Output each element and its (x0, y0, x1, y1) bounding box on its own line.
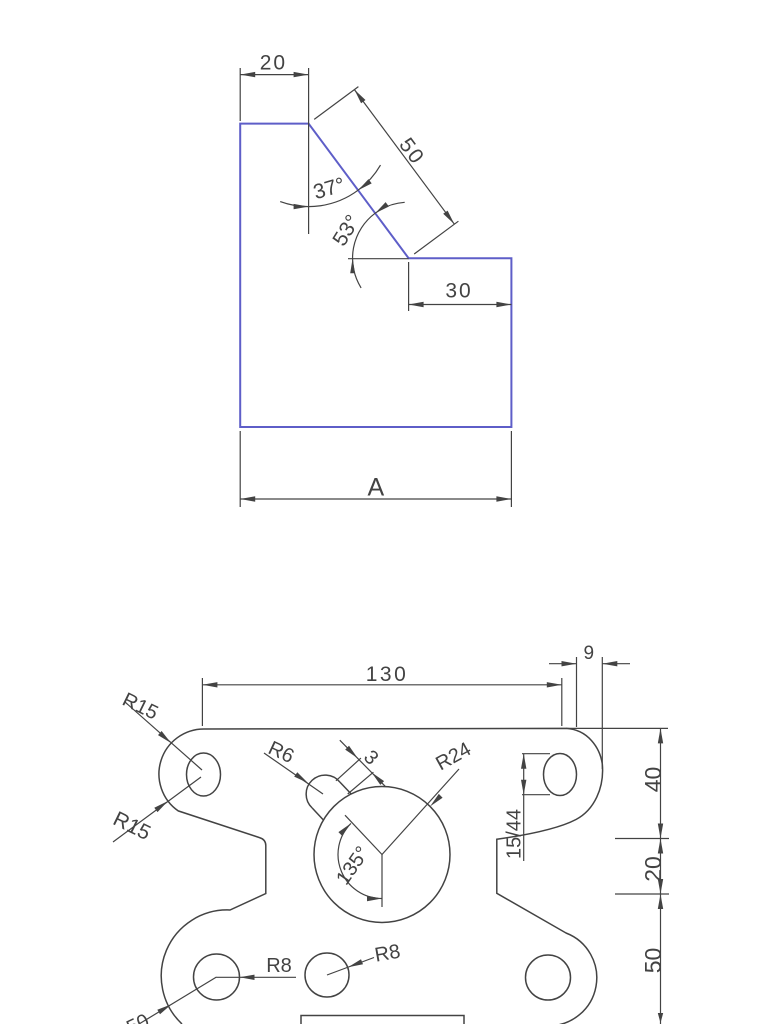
svg-text:20: 20 (260, 52, 287, 75)
plate outline (159, 728, 603, 1025)
svg-text:40: 40 (640, 767, 666, 793)
right ear hole (oval) (544, 754, 577, 796)
bottom-left hole R8 (194, 954, 240, 1000)
slot neck line lower (312, 808, 323, 820)
left ear hole (oval) (187, 753, 221, 796)
svg-text:15/44: 15/44 (504, 809, 526, 859)
radius dim R50 (bottom-left lobe, clipped) (110, 977, 216, 1029)
blue part outline (stepped block with 37-degree chamfer) (240, 124, 511, 427)
slot neck line upper (340, 782, 351, 794)
dimension 20 (615, 839, 669, 895)
wedge line down (vertical) (381, 855, 383, 908)
dimension 20 (top width) (240, 52, 308, 235)
dimension 50 (640, 894, 666, 1024)
svg-text:9: 9 (584, 643, 595, 664)
svg-text:R8: R8 (373, 941, 402, 967)
svg-text:50: 50 (640, 948, 666, 974)
dimension 130 (202, 663, 561, 726)
slot cap arc R6 (306, 775, 340, 808)
radius dim R8 (left hole) (217, 955, 297, 980)
radius dim R15 (upper) (119, 689, 202, 770)
dimension 9 (549, 643, 630, 769)
dimension 30 (step width) (409, 262, 512, 311)
dimension 50 (slant length) (314, 87, 458, 254)
dimension 3 (slot width) (336, 740, 385, 794)
radius dim R8 (middle hole) (327, 941, 402, 975)
bottom-right hole (526, 955, 571, 1000)
bottom-middle hole R8 (305, 953, 349, 997)
radius dim R24 (382, 738, 475, 854)
central circle R24 (314, 787, 450, 923)
dimension 15/44 (right hole) (504, 754, 551, 861)
svg-text:130: 130 (366, 663, 409, 686)
angle dimension 135 deg (332, 823, 382, 901)
angle dimension 53 deg (328, 202, 408, 288)
angle dimension 37 deg (280, 165, 380, 209)
svg-text:30: 30 (445, 280, 472, 303)
svg-text:A: A (367, 474, 384, 502)
wedge line to slot (up-left 45) (345, 815, 382, 854)
svg-text:20: 20 (640, 856, 666, 882)
dimension 40 (566, 728, 669, 838)
radius dim R15 (lower) (109, 777, 201, 845)
radius dim R6 (264, 737, 323, 794)
svg-text:R8: R8 (266, 955, 292, 977)
dimension A (overall width) (240, 431, 511, 507)
bottom rectangle (clipped slot) (301, 1016, 464, 1025)
